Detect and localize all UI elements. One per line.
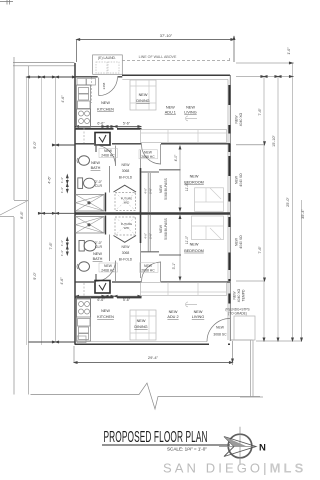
svg-text:NEW: NEW [159,184,163,193]
svg-text:NEW: NEW [190,243,199,247]
svg-text:SAN DIEGO|MLS: SAN DIEGO|MLS [163,461,306,476]
svg-text:5068 BI-PASS: 5068 BI-PASS [164,217,168,239]
svg-text:9'-0": 9'-0" [33,141,37,149]
svg-text:NEW: NEW [216,326,225,330]
svg-text:NEW: NEW [194,310,203,314]
svg-text:NEW: NEW [144,151,153,155]
svg-text:4040 XO: 4040 XO [239,112,243,126]
svg-text:NEW: NEW [104,264,113,268]
svg-text:1'-3": 1'-3" [60,250,64,256]
svg-text:8'-6": 8'-6" [20,211,24,219]
svg-text:11'-0": 11'-0" [185,235,189,244]
svg-text:LINE OF WALL ABOVE: LINE OF WALL ABOVE [139,55,177,59]
svg-text:BEDROOM: BEDROOM [184,181,204,185]
svg-text:BATH: BATH [91,166,101,170]
svg-text:15'-10": 15'-10" [272,134,276,146]
svg-text:(TO GRADE): (TO GRADE) [228,312,247,316]
svg-text:4'-6": 4'-6" [60,277,64,285]
svg-text:ADU 2: ADU 2 [167,315,178,319]
svg-text:25'-0": 25'-0" [286,197,290,207]
svg-text:NEW: NEW [122,163,131,167]
svg-text:W/D: W/D [124,226,129,230]
svg-text:3'-1": 3'-1" [172,262,176,270]
svg-text:2468 HC: 2468 HC [101,154,115,158]
svg-text:NEW: NEW [139,93,148,97]
svg-text:1'-3": 1'-3" [60,177,64,183]
svg-text:4'-0": 4'-0" [174,154,178,162]
svg-text:4'-6": 4'-6" [61,95,65,103]
svg-text:LIVING: LIVING [192,315,204,319]
svg-text:NEW: NEW [234,237,238,246]
svg-text:5068 BI-PASS: 5068 BI-PASS [164,177,168,199]
svg-text:NEW: NEW [166,106,175,110]
svg-text:2668 HC: 2668 HC [141,155,155,159]
svg-text:NEW: NEW [91,161,100,165]
svg-text:2468: 2468 [102,82,106,89]
svg-text:NEW: NEW [144,264,153,268]
svg-text:NEW: NEW [101,101,110,105]
svg-text:7'-6": 7'-6" [258,108,262,116]
svg-text:NEW: NEW [137,319,146,323]
svg-text:NEW: NEW [122,245,131,249]
svg-text:7'-6": 7'-6" [258,246,262,254]
svg-text:4040 XO: 4040 XO [239,235,243,249]
svg-text:3068: 3068 [122,251,130,255]
svg-text:LIVING: LIVING [184,110,196,114]
svg-text:3068 SC: 3068 SC [213,333,227,337]
svg-text:KITCHEN: KITCHEN [97,315,114,319]
svg-text:2'-0": 2'-0" [149,188,153,194]
svg-text:29'-4": 29'-4" [148,355,159,360]
svg-text:NEW: NEW [234,175,238,184]
svg-text:2668 HC: 2668 HC [141,268,155,272]
svg-text:4'-6": 4'-6" [48,176,52,184]
svg-text:5'-6": 5'-6" [123,298,131,302]
svg-text:6'-6": 6'-6" [97,298,105,302]
svg-text:37'-10": 37'-10" [160,33,173,38]
svg-text:NEW: NEW [101,309,110,313]
svg-text:KITCHEN: KITCHEN [97,108,114,112]
svg-text:NEW: NEW [190,174,199,178]
svg-text:1'-3": 1'-3" [60,187,64,193]
svg-text:7'-6": 7'-6" [49,242,53,250]
svg-text:2'-0": 2'-0" [149,233,153,239]
svg-text:CLR: CLR [95,245,103,249]
svg-text:6'-6": 6'-6" [97,122,105,126]
svg-text:4040 XO: 4040 XO [239,173,243,187]
svg-text:TEMPD: TEMPD [242,289,246,301]
svg-text:4040 XO: 4040 XO [237,288,241,302]
svg-text:DINING: DINING [134,325,147,329]
svg-text:1'-0": 1'-0" [287,47,291,55]
svg-text:4'-6": 4'-6" [144,233,148,239]
svg-text:DINING: DINING [136,99,149,103]
svg-text:(E) LAUND.: (E) LAUND. [98,56,116,60]
svg-text:CLR: CLR [95,184,103,188]
svg-text:NEW: NEW [233,291,237,300]
svg-text:NEW: NEW [234,115,238,124]
svg-text:5'-6": 5'-6" [123,122,131,126]
svg-text:ADU 1: ADU 1 [165,110,176,114]
svg-text:BEDROOM: BEDROOM [184,249,204,253]
svg-text:9'-0": 9'-0" [33,272,37,280]
svg-text:35'-4": 35'-4" [301,209,305,219]
svg-text:1'-3": 1'-3" [60,240,64,246]
svg-text:NEW: NEW [93,252,102,256]
svg-text:BI-FOLD: BI-FOLD [119,258,133,262]
svg-text:N: N [259,443,266,454]
svg-text:4'-6": 4'-6" [144,188,148,194]
svg-text:3068: 3068 [122,169,130,173]
svg-text:NEW: NEW [169,310,178,314]
svg-text:SCALE: 1/4" = 1'-0": SCALE: 1/4" = 1'-0" [167,447,207,452]
svg-text:NEW: NEW [186,106,195,110]
svg-text:NEW: NEW [104,149,113,153]
svg-text:PROPOSED FLOOR PLAN: PROPOSED FLOOR PLAN [104,427,208,446]
svg-text:BATH: BATH [93,257,103,261]
svg-text:BI-FOLD: BI-FOLD [119,176,133,180]
svg-text:W/D: W/D [124,201,129,205]
svg-text:NEW: NEW [159,224,163,233]
